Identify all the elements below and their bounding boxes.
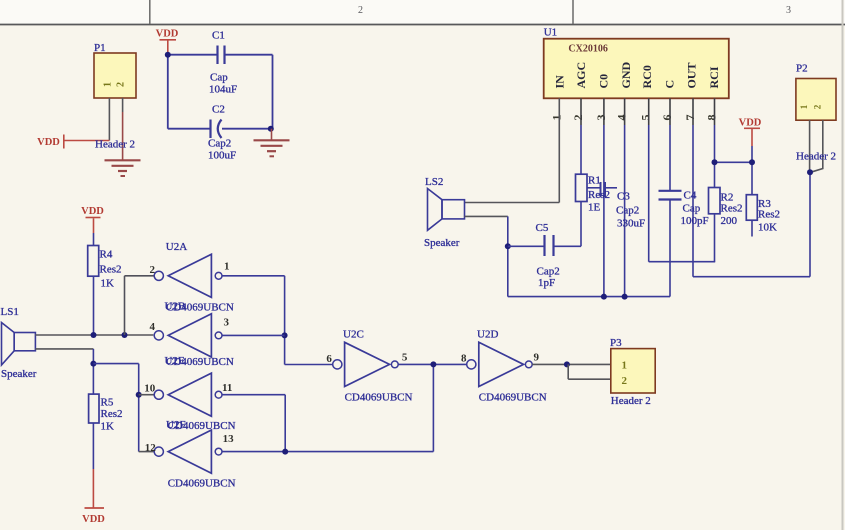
svg-text:Res2: Res2 xyxy=(101,408,123,420)
svg-text:C1: C1 xyxy=(212,30,225,42)
svg-text:U2F: U2F xyxy=(166,419,186,431)
svg-text:Header 2: Header 2 xyxy=(95,139,135,151)
svg-text:Speaker: Speaker xyxy=(424,237,460,249)
svg-text:P3: P3 xyxy=(610,337,622,349)
svg-text:12: 12 xyxy=(145,442,157,454)
svg-text:Res2: Res2 xyxy=(588,189,610,201)
svg-text:CD4069UBCN: CD4069UBCN xyxy=(168,477,236,489)
svg-text:RCI: RCI xyxy=(707,66,721,88)
svg-text:11: 11 xyxy=(222,382,232,394)
svg-text:10: 10 xyxy=(144,383,156,395)
svg-text:C0: C0 xyxy=(597,74,611,89)
svg-text:C5: C5 xyxy=(536,222,549,234)
svg-text:9: 9 xyxy=(534,352,540,364)
svg-text:CX20106: CX20106 xyxy=(568,44,607,55)
svg-text:13: 13 xyxy=(223,433,235,445)
svg-text:VDD: VDD xyxy=(82,514,105,525)
svg-text:Res2: Res2 xyxy=(100,264,122,276)
svg-text:P1: P1 xyxy=(94,42,106,54)
svg-text:VDD: VDD xyxy=(739,118,762,129)
svg-text:CD4069UBCN: CD4069UBCN xyxy=(479,392,547,404)
svg-text:IN: IN xyxy=(553,75,567,89)
svg-text:Cap: Cap xyxy=(683,203,701,215)
svg-text:1: 1 xyxy=(224,261,230,273)
svg-text:VDD: VDD xyxy=(37,137,60,148)
svg-text:8: 8 xyxy=(461,353,467,365)
svg-text:2: 2 xyxy=(116,82,127,87)
svg-text:7: 7 xyxy=(683,115,697,121)
svg-text:3: 3 xyxy=(786,5,791,16)
svg-text:P2: P2 xyxy=(796,63,808,75)
svg-text:Cap2: Cap2 xyxy=(616,205,639,217)
svg-text:U2C: U2C xyxy=(343,329,364,341)
svg-text:RC0: RC0 xyxy=(640,65,654,88)
svg-text:3: 3 xyxy=(224,317,230,329)
svg-text:Cap2: Cap2 xyxy=(537,266,560,278)
svg-text:6: 6 xyxy=(660,115,674,121)
svg-text:U2E: U2E xyxy=(165,355,185,367)
svg-text:104uF: 104uF xyxy=(209,84,237,96)
svg-text:1K: 1K xyxy=(101,278,115,290)
svg-text:2: 2 xyxy=(150,264,156,276)
svg-text:1pF: 1pF xyxy=(538,277,555,289)
svg-text:C4: C4 xyxy=(684,190,697,202)
svg-text:1: 1 xyxy=(103,82,114,87)
svg-text:R4: R4 xyxy=(100,249,113,261)
svg-text:100uF: 100uF xyxy=(208,150,236,162)
svg-text:Header 2: Header 2 xyxy=(796,151,836,163)
svg-text:AGC: AGC xyxy=(574,62,588,89)
svg-text:C2: C2 xyxy=(212,104,225,116)
svg-text:U2D: U2D xyxy=(477,329,498,341)
svg-text:VDD: VDD xyxy=(81,206,104,217)
svg-text:VDD: VDD xyxy=(156,29,179,40)
svg-text:CD4069UBCN: CD4069UBCN xyxy=(345,392,413,404)
svg-text:LS2: LS2 xyxy=(425,176,443,188)
svg-text:Header 2: Header 2 xyxy=(611,395,651,407)
svg-text:Cap: Cap xyxy=(210,72,228,84)
svg-text:1: 1 xyxy=(622,360,628,372)
svg-text:5: 5 xyxy=(639,115,653,121)
svg-text:LS1: LS1 xyxy=(1,306,19,318)
svg-text:200: 200 xyxy=(721,215,738,227)
svg-text:1: 1 xyxy=(549,115,563,121)
svg-text:GND: GND xyxy=(619,62,633,89)
svg-text:R5: R5 xyxy=(101,397,114,409)
svg-text:1E: 1E xyxy=(588,202,601,214)
svg-text:Cap2: Cap2 xyxy=(208,138,231,150)
svg-text:4: 4 xyxy=(150,321,156,333)
svg-text:5: 5 xyxy=(402,352,408,364)
svg-text:10K: 10K xyxy=(758,222,777,234)
svg-text:U2A: U2A xyxy=(166,241,187,253)
svg-text:U1: U1 xyxy=(544,27,557,39)
svg-text:OUT: OUT xyxy=(685,62,699,88)
svg-text:1K: 1K xyxy=(101,421,115,433)
svg-text:2: 2 xyxy=(571,115,585,121)
svg-text:C3: C3 xyxy=(617,191,630,203)
svg-text:6: 6 xyxy=(326,353,332,365)
svg-text:100pF: 100pF xyxy=(681,215,709,227)
svg-text:2: 2 xyxy=(358,5,363,16)
svg-text:4: 4 xyxy=(615,115,629,121)
svg-text:Res2: Res2 xyxy=(758,209,780,221)
svg-text:2: 2 xyxy=(813,104,823,109)
svg-text:1: 1 xyxy=(799,104,809,109)
svg-text:Res2: Res2 xyxy=(721,203,743,215)
svg-text:3: 3 xyxy=(594,115,608,121)
svg-text:2: 2 xyxy=(622,375,628,387)
svg-text:330uF: 330uF xyxy=(617,218,645,230)
svg-text:U2B: U2B xyxy=(165,301,186,313)
svg-text:R1: R1 xyxy=(588,175,601,187)
svg-text:Speaker: Speaker xyxy=(1,368,37,380)
svg-text:8: 8 xyxy=(705,115,719,121)
svg-text:C: C xyxy=(662,80,676,89)
